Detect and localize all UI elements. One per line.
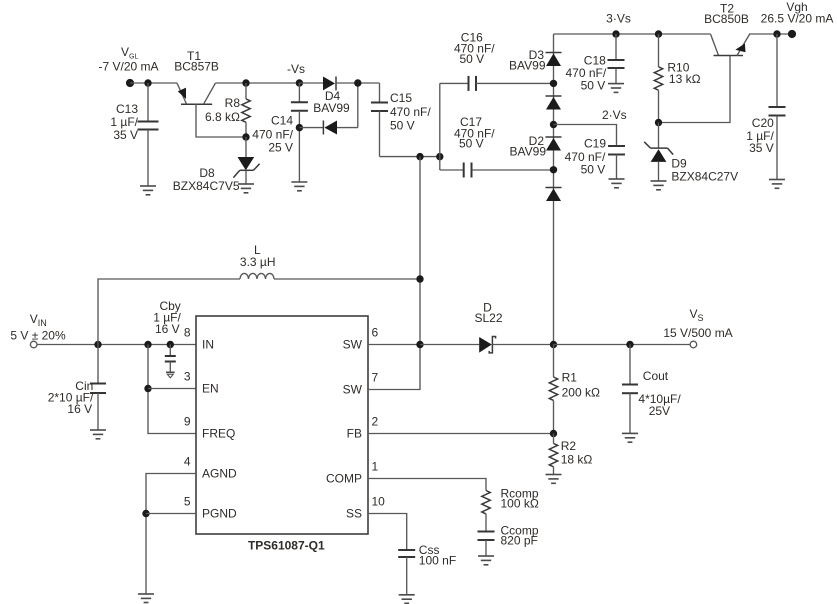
svg-text:6.8 kΩ: 6.8 kΩ	[205, 110, 240, 124]
node VIN label	[10, 312, 66, 342]
node PGND junction	[142, 510, 149, 517]
capacitor Css	[398, 550, 415, 595]
C15 value label	[390, 91, 431, 133]
node 2Vs label	[602, 108, 627, 122]
svg-text:16 V: 16 V	[67, 402, 92, 416]
node -Vs / C14 top junction	[296, 79, 303, 86]
ground C19	[609, 179, 625, 188]
wire input rail	[37, 344, 196, 346]
ground C18	[608, 84, 624, 93]
diode D2 lower	[546, 188, 562, 202]
svg-text:VIN: VIN	[30, 312, 47, 328]
node VS terminal	[690, 341, 697, 348]
diode D3 lower	[546, 96, 562, 110]
R8 value label	[205, 96, 240, 124]
svg-text:50 V: 50 V	[459, 136, 484, 150]
capacitor Ccomp	[478, 532, 495, 557]
node VGL terminal	[126, 79, 134, 87]
svg-text:25V: 25V	[649, 404, 670, 418]
svg-text:TPS61087-Q1: TPS61087-Q1	[248, 539, 325, 553]
svg-text:5 V ± 20%: 5 V ± 20%	[10, 328, 66, 342]
svg-text:C14: C14	[271, 114, 293, 128]
wire diode stack vertical	[553, 34, 555, 345]
node VIN terminal	[30, 341, 37, 348]
svg-text:D8: D8	[199, 166, 215, 180]
ground C20	[769, 180, 785, 189]
diode D4 upper	[299, 77, 379, 91]
wire boost input vertical	[98, 279, 240, 345]
svg-text:C15: C15	[390, 91, 412, 105]
node Cby junction	[167, 341, 174, 348]
svg-text:BZX84C27V: BZX84C27V	[671, 170, 738, 184]
svg-text:BZX84C7V5: BZX84C7V5	[173, 179, 240, 193]
ground Cby arrow	[166, 372, 175, 378]
node -Vs label	[287, 62, 305, 76]
node output junction	[550, 341, 557, 348]
Cby value label	[153, 299, 181, 336]
wire SW pin 7	[368, 389, 420, 391]
capacitor C17	[440, 163, 554, 178]
svg-text:470 nF/: 470 nF/	[565, 150, 606, 164]
U1 part number label	[248, 539, 325, 553]
svg-text:BC857B: BC857B	[174, 60, 219, 74]
svg-text:5: 5	[184, 495, 191, 509]
svg-text:BAV99: BAV99	[510, 145, 547, 159]
resistor R8	[242, 83, 250, 137]
Rcomp value label	[501, 486, 539, 510]
wire C16/C17 vertical	[439, 83, 441, 170]
R10 value label	[667, 61, 700, 87]
svg-text:1 µF/: 1 µF/	[110, 115, 138, 129]
node SW branch junction	[416, 153, 423, 160]
svg-text:9: 9	[184, 415, 191, 429]
zener diode D9	[644, 123, 673, 182]
svg-text:SL22: SL22	[474, 311, 502, 325]
svg-text:-Vs: -Vs	[287, 62, 305, 76]
L value label	[240, 243, 276, 269]
node C17 / stack junction	[550, 166, 557, 173]
wire EN pin	[148, 388, 196, 390]
ground R2	[546, 475, 562, 484]
capacitor Cby	[165, 345, 176, 373]
svg-text:VGL: VGL	[121, 45, 138, 61]
wire AGND pin	[146, 474, 196, 595]
svg-text:100 nF: 100 nF	[419, 554, 456, 568]
ground AGND/PGND	[138, 594, 154, 603]
node 2Vs stack junction	[550, 121, 557, 128]
wire C15 bottom run	[380, 156, 440, 158]
svg-text:EN: EN	[202, 382, 219, 396]
R2 value label	[561, 439, 593, 467]
diode D2 upper	[546, 137, 562, 151]
svg-text:470 nF/: 470 nF/	[390, 105, 431, 119]
svg-text:FB: FB	[347, 427, 362, 441]
svg-text:1: 1	[372, 460, 379, 474]
svg-text:4: 4	[184, 455, 191, 469]
capacitor C13	[138, 83, 159, 186]
ground Css	[399, 595, 415, 604]
node Cout junction	[626, 341, 633, 348]
D4 label	[313, 89, 350, 115]
svg-text:3·Vs: 3·Vs	[606, 12, 631, 26]
node EN junction	[144, 385, 151, 392]
svg-text:6: 6	[372, 326, 379, 340]
Ccomp value label	[501, 524, 539, 548]
svg-text:10: 10	[372, 495, 386, 509]
pin 8 IN	[184, 326, 214, 352]
svg-text:R8: R8	[225, 96, 241, 110]
svg-text:R1: R1	[562, 371, 578, 385]
R1 value label	[562, 371, 600, 400]
node C13 junction	[144, 79, 151, 86]
svg-text:3: 3	[184, 370, 191, 384]
node C18 junction	[612, 30, 619, 37]
diode D4 lower	[299, 83, 357, 135]
svg-text:SW: SW	[343, 383, 363, 397]
resistor R2	[549, 434, 557, 475]
wire PGND pin	[146, 513, 196, 515]
wire COMP pin	[368, 479, 486, 491]
svg-text:35 V: 35 V	[113, 128, 138, 142]
svg-text:7: 7	[372, 371, 379, 385]
D2 label	[510, 134, 547, 159]
C18 value label	[565, 53, 606, 92]
ground C14	[291, 182, 307, 191]
node FB junction	[550, 430, 557, 437]
capacitor C14	[291, 83, 308, 182]
capacitor Cin	[90, 345, 106, 431]
wire SS pin	[368, 514, 407, 551]
svg-text:BAV99: BAV99	[509, 59, 546, 73]
ground D9	[651, 181, 667, 190]
op-amp U1 TPS61087-Q1 box	[196, 316, 368, 534]
pin 10 SS	[346, 495, 385, 521]
pin 2 FB	[347, 415, 379, 441]
svg-text:IN: IN	[202, 338, 214, 352]
inductor L	[240, 273, 274, 279]
pin 5 PGND	[184, 495, 237, 521]
node C14/D4 lower junction	[296, 124, 303, 131]
node VS label	[663, 307, 732, 340]
pin 3 EN	[184, 370, 219, 396]
ground Cin	[90, 430, 106, 439]
svg-text:35 V: 35 V	[749, 141, 774, 155]
pin 6 SW	[343, 326, 379, 352]
svg-text:50 V: 50 V	[581, 163, 606, 177]
capacitor C20	[769, 34, 786, 180]
wire output rail	[554, 344, 691, 346]
node C20 junction	[773, 30, 780, 37]
T2 label	[704, 2, 749, 26]
D label	[474, 301, 502, 326]
svg-text:2·Vs: 2·Vs	[602, 108, 627, 122]
svg-text:13 kΩ: 13 kΩ	[669, 72, 701, 86]
svg-text:BAV99: BAV99	[313, 101, 350, 115]
node C16 / stack junction	[550, 80, 557, 87]
node SW junction	[416, 341, 423, 348]
zener diode D8	[233, 137, 259, 184]
pin 9 FREQ	[184, 415, 236, 441]
svg-text:18 kΩ: 18 kΩ	[561, 453, 593, 467]
pin 7 SW	[343, 371, 379, 397]
wire SW pin 6	[368, 344, 420, 346]
wire T2 emitter to Vgh	[750, 33, 792, 35]
ground C13	[140, 186, 156, 195]
Cin value label	[48, 379, 94, 416]
wire EN/FREQ branch	[148, 345, 196, 434]
wire SW to diode D	[420, 344, 479, 346]
svg-text:50 V: 50 V	[390, 119, 415, 133]
capacitor Cout	[622, 345, 638, 434]
wire FB pin	[368, 433, 554, 435]
wire 2Vs run	[554, 125, 617, 147]
C17 value label	[454, 115, 495, 151]
svg-text:15 V/500 mA: 15 V/500 mA	[663, 326, 732, 340]
svg-text:200 kΩ: 200 kΩ	[562, 386, 600, 400]
node R10/T2 base junction	[655, 119, 662, 126]
capacitor C18	[608, 34, 625, 84]
T1 label	[174, 49, 219, 74]
svg-text:-7 V/20 mA: -7 V/20 mA	[98, 60, 158, 74]
svg-text:16 V: 16 V	[155, 322, 180, 336]
svg-text:COMP: COMP	[326, 472, 362, 486]
C14 value label	[252, 114, 293, 155]
svg-text:PGND: PGND	[202, 507, 237, 521]
D9 label	[671, 156, 738, 183]
svg-text:3.3 µH: 3.3 µH	[240, 255, 276, 269]
D8 label	[173, 166, 240, 193]
capacitor C16	[440, 76, 554, 91]
capacitor C19	[608, 146, 625, 179]
wire VGL rail	[130, 82, 177, 84]
svg-text:Cout: Cout	[643, 369, 669, 383]
svg-text:VS: VS	[690, 307, 704, 323]
capacitor C15	[371, 83, 388, 157]
svg-text:820 pF: 820 pF	[501, 534, 538, 548]
node EN branch junction	[144, 341, 151, 348]
D3 label	[509, 48, 546, 73]
svg-text:C20: C20	[752, 116, 774, 130]
resistor R1	[549, 345, 557, 434]
svg-text:2: 2	[372, 415, 379, 429]
C13 value label	[110, 102, 138, 142]
node L/SW junction	[416, 275, 423, 282]
node Vgh terminal	[788, 30, 796, 38]
svg-text:R2: R2	[561, 439, 577, 453]
transistor T1	[177, 83, 246, 137]
C19 value label	[565, 137, 607, 177]
diode D3 upper	[546, 53, 562, 67]
diode D SL22	[479, 337, 553, 353]
svg-text:D9: D9	[671, 156, 687, 170]
C20 value label	[746, 116, 774, 155]
svg-text:SS: SS	[346, 507, 362, 521]
svg-text:BC850B: BC850B	[704, 12, 749, 26]
pin 4 AGND	[184, 455, 237, 481]
ground Cout	[622, 433, 638, 442]
svg-text:470 nF/: 470 nF/	[252, 128, 293, 142]
svg-text:100 kΩ: 100 kΩ	[501, 497, 539, 511]
svg-text:C19: C19	[584, 137, 606, 151]
C16 value label	[454, 31, 495, 67]
ground D8	[238, 184, 254, 193]
node C16/C17 branch junction	[436, 153, 443, 160]
svg-text:50 V: 50 V	[459, 52, 484, 66]
resistor Rcomp	[482, 491, 490, 532]
pin 1 COMP	[326, 460, 379, 486]
svg-text:SW: SW	[343, 338, 363, 352]
ground Ccomp	[478, 556, 494, 565]
svg-text:FREQ: FREQ	[202, 427, 235, 441]
svg-text:50 V: 50 V	[581, 78, 606, 92]
transistor T2	[659, 34, 751, 123]
wire L to SW vertical	[274, 278, 420, 280]
node Vgh label	[761, 0, 834, 26]
wire T1 collector to -Vs rail	[216, 82, 300, 84]
node VGL label	[98, 45, 158, 74]
svg-text:8: 8	[184, 326, 191, 340]
node Cin junction	[94, 341, 101, 348]
node R10 top junction	[655, 30, 662, 37]
svg-text:C13: C13	[116, 102, 138, 116]
svg-text:AGND: AGND	[202, 467, 237, 481]
resistor R10	[654, 34, 662, 123]
Css value label	[419, 543, 456, 568]
node D4 cathode junction	[354, 79, 361, 86]
Cout value label	[638, 369, 681, 418]
wire 3Vs rail	[554, 33, 711, 35]
svg-text:26.5 V/20 mA: 26.5 V/20 mA	[761, 12, 834, 26]
node R8/D8 junction	[242, 133, 249, 140]
node 3Vs label	[606, 12, 631, 26]
wire SW vertical	[419, 157, 421, 390]
node R8 top junction	[242, 79, 249, 86]
svg-text:25 V: 25 V	[268, 141, 293, 155]
